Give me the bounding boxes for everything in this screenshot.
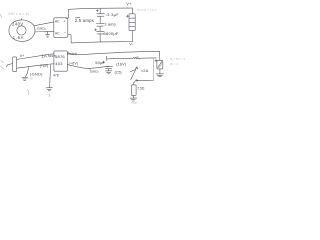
svg-text:R₁: R₁ [136,56,139,60]
svg-text:≈2A: ≈2A [141,68,149,73]
svg-text:R₂≈ 5Ω ÷ 1: R₂≈ 5Ω ÷ 1 [170,57,185,61]
svg-text:(+B): (+B) [27,77,33,81]
svg-text:V+: V+ [126,1,132,6]
svg-text:240 v a-c in: 240 v a-c in [7,11,29,16]
svg-text:(16V): (16V) [116,62,127,66]
svg-text:(+6V): (+6V) [69,61,79,65]
svg-text:1.6A: 1.6A [13,35,24,40]
svg-text:5876: 5876 [55,54,65,59]
svg-text:1A: 1A [41,54,47,59]
svg-text:AC: AC [55,31,60,35]
svg-text:2.5 amps: 2.5 amps [75,18,94,23]
svg-text:240V: 240V [12,21,24,26]
svg-text:−: − [64,30,67,35]
svg-text:Switch: Switch [67,52,77,56]
svg-text:(GND): (GND) [90,70,99,74]
svg-text:V+: V+ [20,54,26,58]
svg-text:+: + [63,18,66,23]
svg-text:W ≈ 2: W ≈ 2 [170,62,178,66]
svg-text:8 turns ≈ 1.2 m: 8 turns ≈ 1.2 m [137,8,157,12]
svg-text:AC: AC [55,20,60,24]
svg-text:7.5Ω: 7.5Ω [137,87,145,91]
svg-text:‹3.3μF: ‹3.3μF [105,12,119,17]
svg-text:2 amp: 2 amp [104,23,116,27]
svg-text:GND: GND [131,101,137,105]
svg-text:(2.5): (2.5) [115,71,122,75]
svg-text:478: 478 [53,74,59,78]
svg-text:6800μF: 6800μF [104,31,119,36]
svg-text:V−: V− [129,42,133,46]
svg-text:403: 403 [55,61,63,66]
svg-text:(+6V): (+6V) [40,64,48,68]
svg-text:(GND): (GND) [37,26,46,30]
